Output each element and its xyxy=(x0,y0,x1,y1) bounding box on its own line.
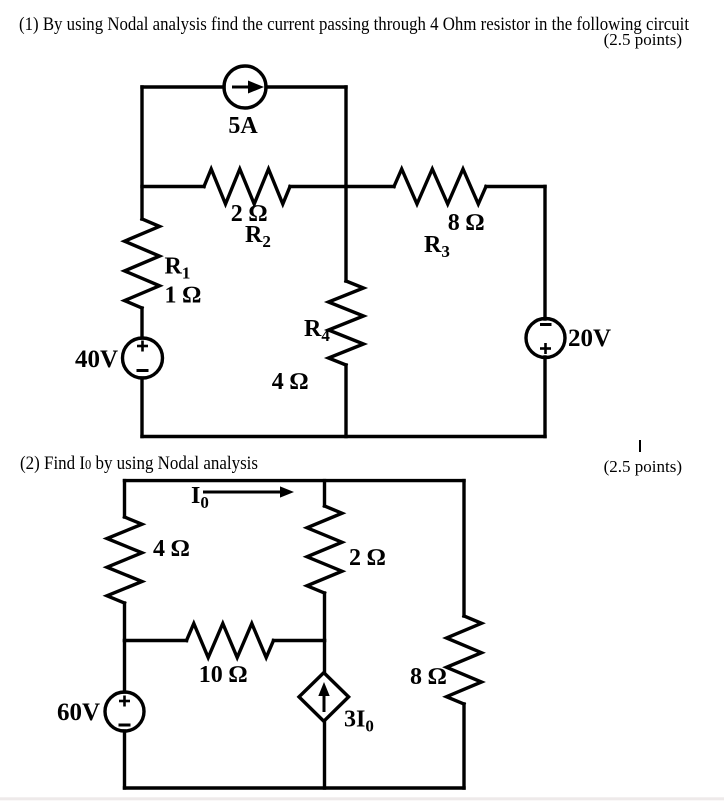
wire: circuit 2 left vertical below 60V source xyxy=(123,731,126,788)
svg-text:(1) By using Nodal analysis fi: (1) By using Nodal analysis find the cur… xyxy=(19,14,690,35)
svg-text:(2.5 points): (2.5 points) xyxy=(604,457,682,476)
wire: circuit 2 left vertical (4 Ohm to 10 Ohm node) xyxy=(123,603,126,641)
wire: circuit 2 bottom horizontal xyxy=(125,786,465,789)
wire: circuit 1 left vertical below 40V source xyxy=(140,378,143,437)
wire: circuit 2 middle vertical upper (top to 2 Ohm) xyxy=(323,481,326,506)
svg-text:3I0: 3I0 xyxy=(344,707,374,736)
page bottom scan edge line xyxy=(0,797,724,800)
resistor 8 Ohm (circuit 2, vertical) xyxy=(447,616,482,704)
svg-text:8 Ω: 8 Ω xyxy=(448,210,484,236)
wire: circuit 2 10 Ohm row right segment xyxy=(274,639,325,642)
svg-text:4 Ω: 4 Ω xyxy=(153,536,189,562)
svg-text:40V: 40V xyxy=(75,346,118,373)
20V source minus sign xyxy=(540,323,552,326)
wire: circuit 1 middle vertical below R4 xyxy=(344,365,347,437)
svg-text:60V: 60V xyxy=(57,699,100,726)
20V source plus sign xyxy=(540,343,551,354)
current source 5A arrow xyxy=(232,81,264,94)
svg-text:R1: R1 xyxy=(165,254,191,283)
resistor 4 Ohm (circuit 2, vertical) xyxy=(107,517,142,603)
resistor R3 8 Ohm (horizontal) xyxy=(394,169,486,204)
wire: circuit 2 right vertical below 8 Ohm xyxy=(462,704,465,788)
svg-text:R4: R4 xyxy=(304,316,330,345)
svg-text:20V: 20V xyxy=(568,325,611,352)
svg-text:1 Ω: 1 Ω xyxy=(165,283,201,309)
cursor mark above points 2 xyxy=(639,440,641,452)
wire: circuit 2 middle vertical (2 Ohm to node) xyxy=(323,593,326,641)
svg-text:10 Ω: 10 Ω xyxy=(199,662,247,688)
wire: circuit 1 resistor row left segment xyxy=(142,185,204,188)
wire: circuit 1 bottom horizontal xyxy=(142,435,545,438)
wire: circuit 2 top horizontal xyxy=(125,479,465,482)
svg-text:4 Ω: 4 Ω xyxy=(272,369,308,395)
wire: circuit 2 right vertical upper (top to 8 Ohm) xyxy=(462,481,465,616)
resistor 2 Ohm (circuit 2, vertical) xyxy=(307,506,342,593)
wire: circuit 1 top-right horizontal (5A source to middle node) xyxy=(266,85,346,88)
wire: circuit 1 middle vertical (node to R4) xyxy=(344,187,347,282)
wire: circuit 2 10 Ohm row left segment xyxy=(125,639,187,642)
wire: circuit 2 left vertical (node to 60V source) xyxy=(123,641,126,693)
svg-text:(2.5 points): (2.5 points) xyxy=(604,30,682,49)
wire: circuit 1 resistor row middle segment xyxy=(290,185,394,188)
dependent source 3I0 arrow (up) xyxy=(318,682,329,712)
wire: circuit 1 left vertical between R1 and 40V source xyxy=(140,308,143,338)
resistor R2 2 Ohm (horizontal) xyxy=(204,169,290,204)
40V source plus sign xyxy=(137,341,148,352)
svg-text:2 Ω: 2 Ω xyxy=(349,545,385,571)
resistor R1 1 Ohm (vertical) xyxy=(125,219,160,308)
svg-text:I0: I0 xyxy=(191,483,209,512)
current I0 arrow xyxy=(203,486,294,497)
circuit 2 wires xyxy=(105,481,482,788)
svg-text:R3: R3 xyxy=(424,232,450,261)
wire: circuit 1 right vertical below 20V source xyxy=(543,357,546,437)
wire: circuit 1 top-left horizontal (left node to 5A source) xyxy=(142,85,224,88)
svg-text:8 Ω: 8 Ω xyxy=(410,664,446,690)
wire: circuit 1 resistor row right segment xyxy=(486,185,545,188)
40V source minus sign xyxy=(137,369,149,372)
wire: circuit 1 left vertical upper (top wire to resistor row) xyxy=(140,87,143,219)
resistor R4 4 Ohm (vertical) xyxy=(329,281,364,365)
wire: circuit 2 middle vertical (node to diamond) xyxy=(323,641,326,674)
svg-text:(2) Find I0 by using Nodal ana: (2) Find I0 by using Nodal analysis xyxy=(20,453,258,474)
voltage source 20V circle xyxy=(526,319,565,358)
voltage source 60V circle xyxy=(105,692,144,731)
wire: circuit 2 middle vertical below diamond xyxy=(323,721,326,788)
voltage source 40V circle xyxy=(123,338,163,378)
60V source plus sign xyxy=(119,696,130,707)
resistor 10 Ohm (circuit 2, horizontal) xyxy=(187,624,274,658)
60V source minus sign xyxy=(119,724,131,727)
wire: circuit 1 right vertical upper (to 20V source) xyxy=(543,187,546,320)
wire: circuit 1 middle vertical upper (top wire to node) xyxy=(344,87,347,187)
current source 5A circle xyxy=(224,66,266,108)
dependent current source 3I0 diamond xyxy=(299,673,349,722)
wire: circuit 2 left vertical upper (top to 4 Ohm) xyxy=(123,481,126,517)
svg-text:5A: 5A xyxy=(228,113,258,139)
